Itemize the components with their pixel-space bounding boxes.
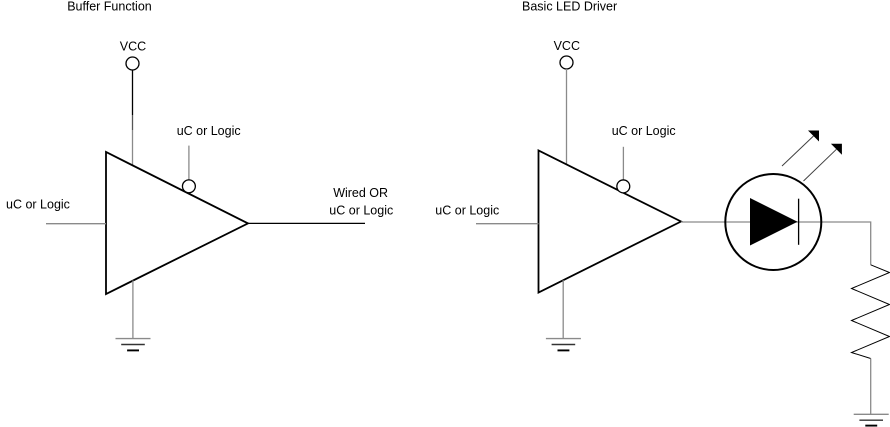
svg-text:uC or Logic: uC or Logic [177, 124, 241, 138]
svg-text:uC or Logic: uC or Logic [435, 203, 499, 217]
output lead (black, left) [248, 222, 365, 224]
svg-text:VCC: VCC [554, 39, 580, 53]
wire VCC to buffer (gray, left) [132, 130, 134, 166]
LED light arrow 2 [804, 144, 842, 181]
svg-text:uC or Logic: uC or Logic [329, 204, 393, 218]
wire enable stub (gray, right) [622, 147, 624, 180]
ground (left buffer) [116, 339, 151, 351]
wire output to LED and resistor (gray, right) [681, 222, 871, 265]
resistor R1 [852, 265, 890, 359]
enable bubble (left) [182, 180, 195, 193]
wire VCC to buffer (gray, right) [566, 69, 568, 165]
wire input (gray, right) [476, 223, 539, 225]
svg-text:VCC: VCC [120, 40, 146, 54]
op-amp buffer U1 (left triangle) [106, 152, 248, 294]
LED light arrow 1 [782, 131, 819, 167]
enable bubble (right) [617, 180, 630, 193]
svg-text:uC or Logic: uC or Logic [612, 124, 676, 138]
svg-text:Wired OR: Wired OR [333, 186, 388, 200]
VCC terminal circle (left) [126, 57, 139, 70]
VCC lead (black, left) [132, 70, 134, 115]
wire resistor to ground (gray) [870, 359, 872, 415]
wire ground stub (gray, left) [132, 280, 134, 338]
VCC terminal circle (right) [560, 56, 573, 69]
svg-text:uC or Logic: uC or Logic [6, 198, 70, 212]
LED cathode bar [798, 199, 800, 245]
LED diode triangle [750, 198, 798, 246]
op-amp buffer U2 (right triangle) [539, 151, 682, 293]
ground (bottom right) [854, 414, 889, 425]
svg-text:Buffer Function: Buffer Function [67, 0, 152, 13]
LED D1 circle [725, 174, 821, 270]
svg-text:Basic LED Driver: Basic LED Driver [522, 0, 617, 13]
wire enable stub (gray, left) [188, 146, 190, 180]
ground (right buffer) [546, 339, 581, 351]
wire input (gray, left) [46, 223, 106, 225]
wire ground stub (gray, right) [562, 280, 564, 338]
